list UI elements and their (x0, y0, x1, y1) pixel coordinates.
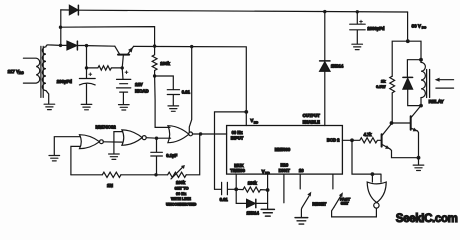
node: 0.1uF bottom junction (154, 173, 157, 176)
ground: U1B input (109, 154, 120, 159)
node: NICAD top / Q1 base node (121, 66, 124, 69)
wire: RC node to 0.01 cap (155, 76, 174, 90)
transformer T1 secondary (42, 45, 60, 104)
switch S1 RESET (299, 174, 301, 189)
svg-text:RESET: RESET (312, 202, 326, 207)
svg-text:DD: DD (254, 120, 259, 124)
svg-text:36 V: 36 V (412, 24, 421, 29)
wire: U3 output to fast set bottom (332, 207, 377, 217)
node: emitter junction (417, 156, 421, 160)
transistor Q1 regulator (118, 54, 129, 56)
svg-text:1N914: 1N914 (331, 64, 344, 69)
resistor R1 base (87, 66, 123, 70)
potentiometer R4 100k (168, 172, 187, 177)
transformer T1 primary (23, 58, 39, 83)
IC U2 MM5309 (227, 126, 343, 175)
svg-text:100k: 100k (160, 61, 170, 66)
wire: U1B input1 to ground (114, 132, 123, 154)
svg-text:MM74C02: MM74C02 (96, 124, 117, 129)
node: RC node (153, 74, 156, 77)
svg-text:12V: 12V (135, 82, 143, 87)
svg-text:0.1μF: 0.1μF (166, 153, 177, 158)
resistor R6 4.7k (352, 138, 381, 143)
ground: RESET (295, 218, 308, 224)
wire: MUX TIMING pin (235, 174, 237, 189)
diode D4 flyback (403, 76, 413, 78)
svg-text:1N914: 1N914 (247, 211, 260, 216)
svg-text:0.01: 0.01 (220, 197, 229, 202)
svg-text:BCD 2: BCD 2 (327, 138, 340, 143)
node: 60Hz node (199, 132, 202, 135)
wire: coil top to flyback diode (407, 60, 421, 77)
wire: base node to Q3 base (392, 122, 411, 124)
resistor R3 1M (102, 172, 121, 177)
wire: rectifier output down to 200uFd (86, 46, 88, 68)
ground: transformer secondary (44, 104, 55, 109)
wire: top rail (61, 10, 408, 12)
node: relay coil top (419, 58, 423, 62)
svg-text:TIMING: TIMING (230, 168, 245, 173)
svg-text:0.5W: 0.5W (376, 84, 386, 89)
svg-text:117 V: 117 V (8, 69, 20, 74)
wire: U1A output (103, 141, 122, 143)
wire: BCD2 to NOR gate inputs (352, 140, 381, 182)
node: 200uFd top (85, 66, 88, 69)
gate U1A NOR (80, 135, 100, 149)
node: VSS junction (266, 188, 270, 192)
svg-text:16: 16 (299, 168, 304, 173)
capacitor C1 200uFd (79, 68, 95, 104)
wire: Q3 emitter down (417, 131, 418, 158)
wire: U1A input1 to ground (54, 137, 80, 156)
resistor R2 100k filter (152, 46, 157, 76)
svg-text:MM5309: MM5309 (275, 147, 291, 152)
svg-text:UNCONNECTED: UNCONNECTED (166, 202, 196, 207)
wire: feedback row right corner up (186, 134, 200, 175)
svg-text:INPUT: INPUT (231, 136, 244, 141)
wire: second rail to 100k drop (61, 27, 155, 46)
svg-text:100k: 100k (248, 181, 258, 186)
node: D2 anode junction (59, 44, 62, 47)
relay K1 coil (421, 60, 425, 106)
gate U1B NOR (122, 130, 142, 145)
wire: U1C output to 60Hz node (193, 133, 227, 135)
wire: 36V to 2k resistor (392, 41, 408, 76)
svg-text:1M: 1M (107, 183, 113, 188)
wire: rail corner down to 36V node (407, 12, 409, 41)
relay K1 core (427, 70, 430, 98)
node: output enable rail tap (323, 10, 326, 13)
node: 36V (406, 39, 410, 43)
ground: VSS (261, 209, 274, 216)
svg-text:1000μFd: 1000μFd (367, 26, 384, 31)
ground: 0.01 cap (168, 106, 179, 111)
svg-text:100k: 100k (176, 180, 186, 185)
wire: DIGIT pin stub (283, 174, 285, 203)
node: 1000uFd tap (356, 10, 359, 13)
transistor Q2 driver (381, 134, 383, 146)
svg-text:NICAD: NICAD (135, 89, 149, 94)
svg-text:2k: 2k (381, 78, 386, 83)
svg-text:SET: SET (341, 201, 349, 206)
diode D5 1N914 mux (236, 189, 246, 203)
ground: NICAD (119, 105, 130, 110)
relay K1 contacts (436, 80, 454, 88)
svg-text:60 Hz: 60 Hz (232, 130, 243, 135)
wire: 36V to relay coil top (408, 41, 421, 60)
wire: U1B output (146, 137, 170, 140)
node: mux timing junction (234, 187, 238, 191)
node: Q3 base node (390, 121, 394, 125)
svg-text:SeekIC.com: SeekIC.com (396, 213, 458, 225)
gate U1C NOR (168, 126, 189, 143)
wire: RC node down to U1C input (155, 76, 170, 127)
ground: 200uFd (81, 104, 92, 109)
svg-text:OUTPUT: OUTPUT (303, 113, 321, 118)
wire: left vertical bus (60, 10, 62, 46)
svg-text:RELAY: RELAY (429, 99, 444, 104)
capacitor C2 0.01 (167, 90, 179, 106)
svg-text:ENABLE: ENABLE (303, 120, 320, 125)
transformer T1 core (41, 46, 43, 97)
wire: U1A input2 feedback (71, 146, 80, 174)
wire: 74C02 supply drop (189, 47, 191, 132)
node: rail junction (59, 26, 62, 29)
svg-text:0.01: 0.01 (182, 89, 191, 94)
diode D1 rectifier (69, 5, 78, 14)
wire: Q2 emitter to emitter row (390, 149, 419, 158)
wire: D2 cathode to node (77, 45, 86, 47)
wire: VDD node to mux cap branch (215, 112, 247, 189)
node: relay bottom / Q3 collector (419, 104, 423, 108)
ground: U1A input (49, 156, 60, 161)
wire: BCD2 pin (342, 139, 352, 141)
capacitor C4 1000uFd (350, 12, 366, 44)
capacitor C5 0.01 mux (215, 182, 237, 194)
node: supply tap (190, 45, 193, 48)
node: NOR input junction (371, 172, 375, 176)
resistor R5 2k 0.5W (390, 76, 395, 123)
diode D3 1N914 (320, 60, 330, 62)
node: VDD junction (244, 110, 248, 114)
switch S2 FAST SET (332, 174, 334, 189)
wire: feedback row left (71, 174, 102, 176)
node: BCD2 junction (350, 138, 354, 142)
svg-text:WITH LINE: WITH LINE (171, 196, 191, 201)
diode D2 rectifier (61, 44, 68, 46)
capacitor C3 0.1uF (151, 138, 163, 175)
svg-text:DIGIT: DIGIT (279, 168, 291, 173)
node: rectifier output (85, 44, 88, 47)
transistor Q3 output (410, 116, 412, 130)
wire: feedback row mid (121, 174, 168, 176)
wire: VSS pin (267, 174, 269, 190)
wire: rectifier output to Q1 emitter (87, 45, 115, 48)
svg-text:200μFd: 200μFd (57, 79, 72, 84)
svg-text:DC: DC (422, 26, 427, 30)
wire: VSS to ground (267, 190, 269, 209)
wire: output enable line (324, 12, 326, 126)
svg-text:AC: AC (19, 71, 24, 75)
svg-text:4.7k: 4.7k (364, 132, 373, 137)
node: 100k filter top (153, 44, 156, 47)
svg-text:SET TO: SET TO (175, 186, 189, 191)
ground: Q3 emitter (418, 158, 420, 165)
node: U1B output junction (155, 137, 158, 140)
battery B1 12V NICAD (117, 68, 131, 105)
gate U3 NOR inverter (367, 182, 386, 203)
resistor R7 100k mux (236, 187, 267, 192)
ground: 1000uFd (352, 44, 363, 49)
wire: Q1 collector rail to VDD corner (134, 46, 247, 125)
